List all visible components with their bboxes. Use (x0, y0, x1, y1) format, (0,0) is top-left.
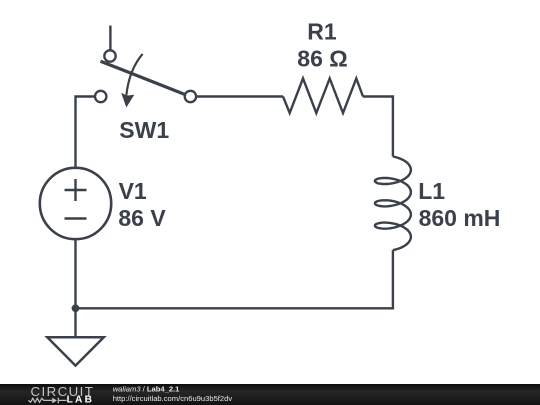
svg-text:waliam3 / Lab4_2.1: waliam3 / Lab4_2.1 (113, 385, 180, 394)
ground (47, 308, 104, 365)
svg-text:V1: V1 (119, 178, 147, 204)
voltage source V1 (40, 168, 111, 239)
wire (76, 239, 393, 308)
wire (109, 26, 111, 51)
svg-text:86 Ω: 86 Ω (297, 46, 347, 72)
resistor R1 (283, 78, 363, 113)
wire (76, 97, 96, 168)
svg-text:L1: L1 (418, 178, 445, 204)
svg-text:86 V: 86 V (118, 205, 166, 231)
node junction (72, 304, 80, 312)
svg-text:R1: R1 (307, 19, 337, 45)
inductor L1 (375, 157, 411, 251)
wire (196, 95, 283, 97)
svg-text:LAB: LAB (67, 395, 95, 405)
svg-text:860 mH: 860 mH (419, 205, 501, 231)
svg-text:SW1: SW1 (119, 117, 169, 143)
footer text (113, 385, 233, 404)
svg-text:http://circuitlab.com/cn6u9u3b: http://circuitlab.com/cn6u9u3b5f2dv (113, 394, 233, 403)
wire (363, 97, 393, 157)
switch SW1 (95, 50, 196, 107)
CircuitLab logo (28, 384, 94, 405)
